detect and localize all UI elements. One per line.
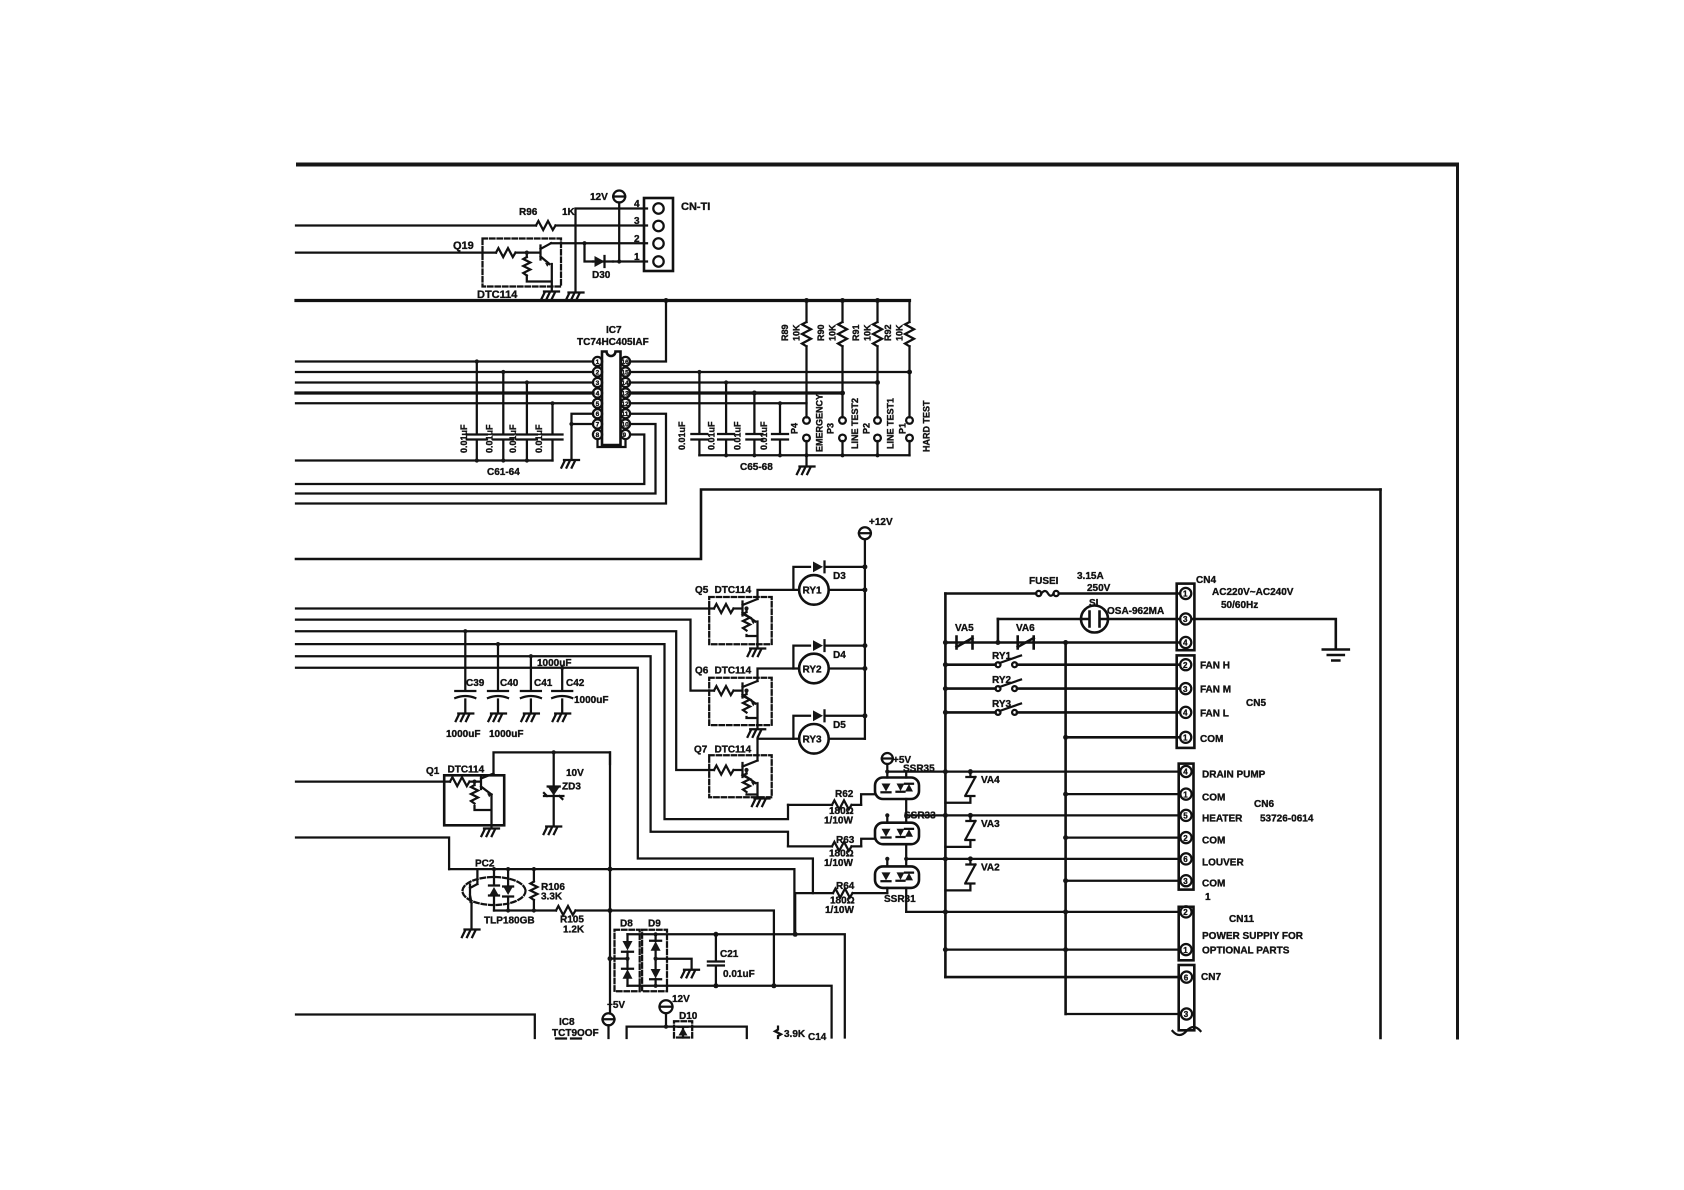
diode D4	[793, 640, 865, 668]
SSR33 pins	[887, 815, 906, 859]
wire louver net	[906, 858, 1180, 860]
svg-text:2: 2	[634, 234, 640, 245]
svg-text:TCT9OOF: TCT9OOF	[552, 1028, 599, 1039]
wire C65-68 bottom bus	[699, 454, 909, 456]
svg-text:C40: C40	[500, 678, 519, 689]
wire CN11 pin1	[945, 948, 1180, 950]
resistor R96	[536, 221, 556, 230]
wire D8 mid tap	[610, 957, 628, 959]
power symbol +5V IC8	[603, 1013, 615, 1025]
wire IC7 pin2	[296, 371, 593, 373]
svg-text:R91: R91	[851, 324, 861, 341]
svg-text:10K: 10K	[863, 324, 873, 341]
inner box vertical line right	[1379, 490, 1382, 1039]
relay contact RY1	[996, 662, 1001, 667]
svg-text:+5V: +5V	[607, 1000, 625, 1011]
svg-text:OPTIONAL PARTS: OPTIONAL PARTS	[1202, 946, 1290, 957]
wire IC7 pin9 loop to left edge	[296, 435, 644, 485]
fuse FUSE1	[1036, 591, 1041, 596]
svg-text:Q5: Q5	[695, 585, 709, 596]
svg-text:R62: R62	[835, 789, 854, 800]
relay contact RY2	[996, 686, 1001, 691]
svg-text:1: 1	[1183, 590, 1188, 599]
svg-text:SI: SI	[1089, 598, 1099, 609]
wire Q19 collector to CN-TI pin2	[551, 242, 647, 244]
wire COM1 CN6	[1066, 793, 1180, 795]
wire Q19 base from left edge	[296, 251, 496, 253]
diode block D9 dashed box	[642, 930, 667, 992]
earth ground	[1323, 650, 1349, 661]
jumper pads P3	[839, 417, 846, 424]
svg-text:SSR31: SSR31	[884, 894, 916, 905]
svg-text:EMERGENCY: EMERGENCY	[815, 394, 825, 452]
svg-text:PC2: PC2	[475, 859, 495, 870]
ground Q6	[748, 725, 766, 737]
ground under P4	[797, 467, 815, 475]
connector CN7 break squiggle	[1173, 1027, 1201, 1035]
resistor R92	[905, 301, 914, 418]
svg-text:D3: D3	[833, 571, 846, 582]
svg-text:R63: R63	[836, 835, 855, 846]
diode block D8 dashed box	[615, 930, 640, 992]
resistor R90	[838, 301, 847, 418]
resistor R64	[795, 889, 887, 898]
capacitor C41 electrolytic	[521, 656, 541, 713]
capacitor C68	[772, 403, 788, 455]
ground Q5	[748, 644, 766, 656]
wire Q1 base from left edge	[296, 780, 450, 782]
svg-text:0.01uF: 0.01uF	[459, 424, 469, 453]
diode D10 dashed box	[674, 1021, 692, 1037]
resistor R63	[788, 842, 861, 851]
wire to R64 feed	[296, 668, 813, 893]
svg-text:4: 4	[1183, 709, 1188, 718]
svg-text:4: 4	[1183, 639, 1188, 648]
connector CN11 box	[1179, 907, 1194, 961]
resistor R105	[556, 906, 576, 915]
svg-text:1/10W: 1/10W	[825, 905, 854, 916]
SSR31 pins	[887, 859, 906, 912]
ground under pin4 vertical	[566, 293, 584, 301]
svg-text:3.15A: 3.15A	[1077, 571, 1104, 582]
svg-text:C61-64: C61-64	[487, 467, 520, 478]
svg-text:VA5: VA5	[955, 623, 974, 634]
capacitor C63	[517, 383, 537, 461]
wire IC7 pin15 to R92 column	[630, 371, 909, 373]
svg-text:OSA-962MA: OSA-962MA	[1107, 606, 1164, 617]
svg-text:1: 1	[1183, 790, 1188, 799]
opto triac SSR31	[875, 866, 919, 888]
svg-text:VA6: VA6	[1016, 623, 1035, 634]
svg-text:HEATER: HEATER	[1202, 814, 1243, 825]
resistor 3.9K stub	[775, 1027, 781, 1038]
svg-text:1000uF: 1000uF	[446, 729, 480, 740]
svg-text:P1: P1	[898, 423, 908, 434]
wire IC7 pin16 up to bus	[630, 301, 666, 362]
capacitor C21	[708, 934, 724, 986]
transistor Q5 internals	[714, 599, 758, 622]
svg-text:250V: 250V	[1087, 583, 1111, 594]
wire AC rail left	[944, 594, 947, 978]
ground D9 tap	[681, 970, 699, 978]
wire RY1 contact net	[945, 663, 1180, 666]
svg-text:4: 4	[634, 199, 640, 210]
svg-text:Q6: Q6	[695, 666, 709, 677]
svg-text:D9: D9	[648, 919, 661, 930]
transistor Q1 internals	[450, 774, 494, 795]
svg-text:C14: C14	[808, 1032, 827, 1043]
svg-text:Q19: Q19	[453, 240, 474, 252]
svg-text:TC74HC405IAF: TC74HC405IAF	[577, 337, 649, 348]
wire bridge top rail	[628, 934, 845, 1037]
wire to R63 feed	[296, 656, 788, 846]
svg-text:P4: P4	[790, 423, 800, 434]
ground Q1	[481, 829, 499, 837]
diode D5	[793, 710, 865, 738]
wire bridge bottom rail	[628, 986, 832, 1038]
svg-text:3: 3	[596, 380, 600, 387]
svg-text:DTC114: DTC114	[715, 585, 752, 596]
transistor Q5 dashed box	[709, 597, 772, 644]
resistor R89	[802, 301, 811, 418]
svg-text:DRAIN PUMP: DRAIN PUMP	[1202, 770, 1266, 781]
svg-text:COM: COM	[1202, 793, 1225, 804]
svg-text:3: 3	[1184, 1010, 1189, 1019]
wire IC7 pin6 pin7 to ground	[572, 414, 594, 460]
capacitor C61	[467, 362, 487, 461]
opto triac SSR35	[875, 778, 919, 800]
svg-text:9: 9	[623, 432, 627, 439]
diode D3	[793, 562, 865, 590]
wire COM3 CN6	[1066, 880, 1180, 882]
svg-text:D5: D5	[833, 720, 846, 731]
wire SSR31 to CN11	[906, 911, 1180, 913]
resistor R62	[788, 800, 861, 809]
wire Q7 collector to RY3	[758, 739, 800, 761]
wire C61-64 bottom bus	[296, 459, 553, 461]
svg-text:10V: 10V	[566, 768, 584, 779]
varistor VA5	[957, 637, 973, 649]
svg-text:1: 1	[1205, 892, 1211, 903]
varistor VA2	[945, 859, 975, 891]
svg-text:0.01uF: 0.01uF	[508, 424, 518, 453]
svg-text:10: 10	[622, 422, 630, 429]
ground under Q19 emitter	[541, 292, 559, 300]
jumper pads P4	[803, 417, 810, 424]
resistor R91	[873, 301, 882, 418]
svg-text:CN6: CN6	[1254, 799, 1274, 810]
svg-text:RY3: RY3	[992, 699, 1012, 710]
varistor VA3	[945, 815, 975, 847]
svg-text:15: 15	[622, 370, 630, 377]
relay contact RY3	[996, 710, 1001, 715]
connector CN7 box	[1179, 965, 1195, 1030]
resistor R106	[530, 869, 537, 910]
svg-text:3: 3	[1183, 615, 1188, 624]
svg-text:TLP180GB: TLP180GB	[484, 916, 535, 927]
svg-text:CN-TI: CN-TI	[681, 201, 710, 213]
connector CN5 box	[1177, 655, 1195, 748]
svg-text:D4: D4	[833, 650, 846, 661]
svg-text:CN11: CN11	[1229, 914, 1254, 925]
wire node to D30	[585, 243, 594, 261]
svg-text:0.01uF: 0.01uF	[485, 424, 495, 453]
wire IC7 pin8-pin9 loop	[598, 439, 626, 447]
svg-text:3: 3	[1183, 685, 1188, 694]
capacitor C39 electrolytic	[455, 631, 475, 713]
wire D9 mid tap to ground	[656, 959, 692, 970]
jumper pads P2	[874, 417, 881, 424]
diode D9 top	[650, 934, 661, 958]
svg-text:1: 1	[1183, 946, 1188, 955]
svg-text:LOUVER: LOUVER	[1202, 858, 1244, 869]
svg-text:RY1: RY1	[992, 651, 1012, 662]
diode D8 top	[622, 934, 633, 958]
wire IC7 pin14 to R91 column	[630, 381, 877, 383]
svg-text:VA3: VA3	[981, 819, 1000, 830]
wire COM CN5	[1066, 736, 1180, 739]
varistor VA4	[945, 772, 975, 803]
wire +5V to SSR35	[886, 764, 888, 778]
wire R96 net: left edge to CN-TI pin3	[296, 224, 647, 226]
PC2 led diodes	[489, 869, 499, 910]
transistor Q6 internals	[714, 681, 758, 704]
svg-text:3: 3	[634, 216, 640, 227]
svg-text:D8: D8	[620, 919, 633, 930]
transistor Q6 dashed box	[709, 678, 772, 725]
capacitor C64	[543, 403, 563, 460]
svg-text:12V: 12V	[590, 192, 608, 203]
power symbol +12V	[859, 527, 871, 539]
wire RY2 contact net	[945, 687, 1180, 690]
wire heater net	[906, 814, 1180, 816]
svg-text:1K: 1K	[562, 207, 576, 218]
wire IC7 pin1 from left edge	[296, 360, 593, 362]
svg-text:12: 12	[622, 401, 630, 408]
svg-text:ZD3: ZD3	[562, 782, 581, 793]
svg-text:CN5: CN5	[1246, 698, 1266, 709]
svg-text:R90: R90	[816, 324, 826, 341]
svg-text:C65-68: C65-68	[740, 462, 773, 473]
svg-text:DTC114: DTC114	[715, 666, 752, 677]
wire CN7 pin3	[1066, 1013, 1180, 1015]
optocoupler PC2 dashed ellipse	[463, 877, 526, 905]
svg-text:3.9K: 3.9K	[784, 1029, 806, 1040]
wire fuse net	[945, 592, 1180, 595]
svg-text:Q1: Q1	[426, 766, 440, 777]
svg-text:LINE TEST1: LINE TEST1	[886, 398, 896, 449]
svg-text:RY2: RY2	[803, 664, 823, 675]
relay RY2	[799, 654, 829, 684]
svg-text:16: 16	[622, 359, 630, 366]
svg-text:50/60Hz: 50/60Hz	[1221, 600, 1258, 611]
wire SSR35 led return	[861, 794, 875, 805]
SSR35 triac pins	[905, 772, 907, 816]
wire SSR33 led return	[861, 839, 875, 847]
svg-text:3: 3	[1183, 877, 1188, 886]
CN-TI pin circles	[653, 203, 663, 213]
wire IC7 pin12 to P4 column	[630, 402, 806, 404]
svg-text:HARD TEST: HARD TEST	[922, 400, 932, 452]
IC7 pins right 16-9	[621, 357, 630, 439]
capacitor C67	[746, 393, 762, 455]
svg-text:D10: D10	[679, 1011, 698, 1022]
wire R64 down to bridge rail	[794, 893, 796, 934]
wire to Q7 base	[296, 631, 714, 770]
wire Q5 base from left edge	[296, 607, 714, 609]
wire vertical mid rail	[1064, 643, 1067, 1015]
svg-text:6: 6	[1183, 855, 1188, 864]
svg-text:C42: C42	[566, 678, 585, 689]
svg-text:DTC114: DTC114	[448, 765, 485, 776]
svg-text:FUSEI: FUSEI	[1029, 576, 1059, 587]
svg-text:CN7: CN7	[1201, 972, 1221, 983]
relay RY3	[799, 724, 829, 754]
svg-text:0.01uF: 0.01uF	[759, 421, 769, 450]
capacitor C62	[493, 372, 513, 461]
svg-text:FAN H: FAN H	[1200, 661, 1230, 672]
wire +12V rail	[864, 539, 866, 739]
wire COM2 CN6	[1066, 836, 1180, 838]
svg-text:1000uF: 1000uF	[489, 729, 523, 740]
wire CN-TI pin4 net	[576, 209, 648, 293]
svg-text:13: 13	[622, 391, 630, 398]
svg-text:1.2K: 1.2K	[563, 925, 585, 936]
wire PC2 vertical to +5V	[609, 752, 611, 1013]
svg-text:IC7: IC7	[606, 325, 622, 336]
svg-text:VA2: VA2	[981, 863, 1000, 874]
svg-text:RY3: RY3	[803, 735, 823, 746]
diode D8 bottom	[622, 959, 633, 986]
capacitor C40 electrolytic	[488, 644, 508, 713]
ground Q7	[752, 799, 770, 807]
connector CN4 box	[1177, 584, 1195, 651]
svg-text:R92: R92	[883, 324, 893, 341]
svg-text:0.01uF: 0.01uF	[707, 421, 717, 450]
wire Q5 collector to RY1	[758, 590, 800, 599]
wire IC8 left net	[296, 1015, 535, 1039]
svg-text:AC220V~AC240V: AC220V~AC240V	[1212, 587, 1294, 598]
border frame right	[1456, 163, 1459, 1040]
wire PC2 feed from left edge	[296, 838, 449, 870]
svg-text:0.01uF: 0.01uF	[534, 424, 544, 453]
wire PC2 bottom rail / R105	[494, 911, 774, 986]
svg-text:COM: COM	[1200, 734, 1223, 745]
svg-text:1000uF: 1000uF	[537, 658, 571, 669]
wire D10 net	[627, 1013, 747, 1038]
svg-text:FAN L: FAN L	[1200, 709, 1229, 720]
svg-text:1/10W: 1/10W	[824, 858, 853, 869]
wire CN4 pin3 to earth	[1192, 619, 1336, 649]
svg-text:5: 5	[596, 401, 600, 408]
svg-text:C41: C41	[534, 678, 553, 689]
svg-text:R89: R89	[780, 324, 790, 341]
svg-text:2: 2	[596, 370, 600, 377]
wire IC7 pin13 to R90 column thick	[630, 391, 842, 394]
IC7 body	[602, 352, 621, 446]
svg-text:53726-0614: 53726-0614	[1260, 814, 1314, 825]
wire main bus	[296, 299, 910, 302]
ground PC2	[462, 930, 480, 938]
svg-text:11: 11	[622, 411, 629, 418]
diode D9 bottom	[650, 959, 661, 986]
svg-text:SSR33: SSR33	[904, 811, 936, 822]
capacitor C65	[691, 372, 707, 455]
svg-text:COM: COM	[1202, 879, 1225, 890]
svg-text:D30: D30	[592, 270, 611, 281]
svg-text:0.01uF: 0.01uF	[733, 421, 743, 450]
svg-text:10K: 10K	[895, 324, 905, 341]
capacitor C42 electrolytic	[552, 668, 572, 713]
svg-text:COM: COM	[1202, 836, 1225, 847]
svg-text:7: 7	[596, 422, 600, 429]
wire Q1 collector top	[494, 752, 611, 773]
svg-text:2: 2	[1183, 908, 1188, 917]
sensor S1	[998, 618, 1081, 621]
wire IC7 pin11 loop to left edge	[296, 414, 666, 504]
zener ZD3	[544, 752, 563, 826]
svg-text:RY2: RY2	[992, 675, 1012, 686]
diode D30	[593, 256, 613, 267]
jumper pads P1	[906, 417, 913, 424]
capacitor C66	[718, 383, 734, 456]
svg-text:RY1: RY1	[803, 586, 823, 597]
svg-text:3.3K: 3.3K	[541, 892, 563, 903]
transistor Q7 dashed box	[709, 755, 772, 797]
svg-text:SSR35: SSR35	[903, 764, 935, 775]
svg-text:12V: 12V	[672, 994, 690, 1005]
svg-text:2: 2	[1183, 661, 1188, 670]
transistor Q1 box	[444, 775, 504, 825]
svg-text:0.01uF: 0.01uF	[723, 969, 755, 980]
wire PC2 top rail	[449, 869, 794, 934]
varistor VA6	[1018, 637, 1034, 649]
IC7 pins left 1-8	[593, 357, 602, 439]
svg-text:4: 4	[1183, 768, 1188, 777]
wire IC7 pin5	[296, 402, 593, 404]
wire to R62 feed	[296, 644, 788, 819]
wire Q6 collector to RY2	[758, 669, 800, 682]
svg-text:1/10W: 1/10W	[824, 816, 853, 827]
svg-text:+12V: +12V	[869, 517, 893, 528]
power symbol +5V SSR	[882, 753, 893, 764]
svg-text:P2: P2	[862, 423, 872, 434]
svg-text:1000uF: 1000uF	[574, 695, 608, 706]
power symbol 12V D10	[660, 1000, 673, 1013]
relay RY1	[799, 575, 829, 605]
svg-text:14: 14	[622, 380, 630, 387]
transistor Q19 dashed box	[483, 239, 562, 287]
svg-text:POWER SUPPIY FOR: POWER SUPPIY FOR	[1202, 931, 1304, 942]
svg-text:5: 5	[1183, 812, 1188, 821]
connector CN6 box	[1179, 764, 1194, 890]
wire S1 branch down	[997, 619, 1000, 643]
svg-text:1: 1	[596, 359, 600, 366]
svg-text:1: 1	[634, 252, 640, 263]
svg-text:4: 4	[596, 391, 600, 398]
wire IC7 pin3	[296, 381, 593, 383]
PC2 phototransistor	[470, 884, 477, 903]
wire drain pump net	[887, 770, 1180, 772]
svg-text:C39: C39	[466, 678, 485, 689]
wire to Q6 base	[296, 620, 714, 691]
svg-text:10K: 10K	[828, 324, 838, 341]
transistor Q7 internals	[714, 761, 758, 784]
svg-text:8: 8	[596, 432, 600, 439]
transistor Q19 internals	[496, 243, 551, 264]
svg-text:2: 2	[1183, 834, 1188, 843]
connector CN-TI box	[644, 198, 673, 271]
